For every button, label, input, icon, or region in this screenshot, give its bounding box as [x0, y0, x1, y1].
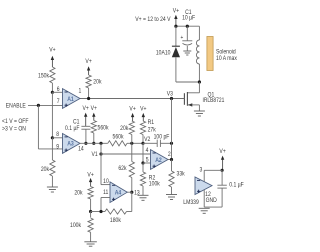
- svg-text:560k: 560k: [113, 134, 124, 141]
- node A2 output junction: [170, 158, 173, 161]
- wire V+ rail horizontal: [176, 25, 200, 27]
- svg-text:V+: V+: [140, 106, 147, 113]
- capacitor C1 0.1uF labels: [73, 119, 79, 126]
- svg-text:A2: A2: [155, 157, 162, 164]
- wire A2 output: [168, 159, 172, 161]
- wire to A1 pin 6: [52, 91, 62, 93]
- node 20k/62k junction: [130, 142, 133, 145]
- node V1 label: [91, 152, 97, 159]
- wire to A3 pin 8: [52, 137, 62, 139]
- svg-text:A1: A1: [67, 96, 74, 103]
- resistor 62k: [131, 143, 133, 161]
- svg-text:IRLB8721: IRLB8721: [203, 97, 225, 104]
- capacitor 100pF: [143, 142, 157, 144]
- node 100pF junction V3: [170, 142, 173, 145]
- resistor 20k pullup A1: [86, 75, 91, 88]
- label GND: [206, 198, 217, 205]
- resistor 20k pullup A2: [129, 121, 134, 135]
- svg-text:R1: R1: [148, 120, 154, 127]
- ground below 33k: [166, 194, 177, 196]
- node C1 junction: [84, 142, 87, 145]
- resistor 560k horizontal: [108, 141, 127, 146]
- wire V3 vertical: [171, 99, 173, 144]
- wire divider down to pin 8: [51, 92, 53, 138]
- pin 1 label: [78, 88, 81, 95]
- pin 7 label: [57, 98, 60, 105]
- svg-text:V+: V+: [129, 106, 136, 113]
- op-amp A1: [63, 89, 81, 109]
- power V+ arrow bottom 20k: [87, 172, 94, 179]
- svg-text:LM339: LM339: [183, 200, 199, 207]
- power V+ arrow for 150k: [49, 47, 56, 54]
- capacitor C1 10uF polarized: [186, 26, 188, 41]
- pin 12 label: [205, 192, 211, 199]
- pin 9 label: [56, 144, 59, 151]
- node junction V+/C1: [186, 25, 189, 28]
- svg-text:10: 10: [103, 179, 109, 186]
- capacitor C1 label: [185, 10, 191, 17]
- ground below divider 20k: [47, 186, 58, 188]
- ground below Q1 source: [194, 110, 205, 112]
- op-amp LM339 power symbol U1: [195, 177, 212, 195]
- wire ENABLE down to A3 pin 9: [37, 105, 39, 148]
- svg-text:V+: V+: [83, 106, 90, 113]
- resistor R1 27k: [140, 121, 145, 135]
- power V+ arrow for 20k pullup A2: [129, 106, 136, 113]
- resistor 180k: [105, 209, 127, 214]
- svg-text:150k: 150k: [38, 73, 49, 80]
- node drain junction: [198, 80, 201, 83]
- wire comparator A1 output to Q1 gate: [80, 98, 185, 100]
- svg-text:A4: A4: [115, 190, 122, 197]
- svg-text:ENABLE: ENABLE: [6, 103, 26, 110]
- svg-text:V+ = 12 to 24 V: V+ = 12 to 24 V: [135, 17, 170, 24]
- wire ENABLE input: [28, 104, 63, 106]
- resistor 33k: [171, 160, 173, 172]
- diode 10A10 label: [156, 50, 171, 57]
- op-amp A4: [110, 182, 127, 203]
- svg-text:180k: 180k: [110, 217, 121, 224]
- svg-text:20k: 20k: [120, 126, 128, 133]
- node junction pin8: [51, 136, 54, 139]
- svg-text:<1 V = OFF: <1 V = OFF: [2, 119, 29, 126]
- label Q1: [208, 92, 215, 99]
- svg-text:13: 13: [134, 190, 140, 197]
- label ENABLE: [6, 103, 26, 110]
- wire 560k to 20k node: [127, 142, 143, 144]
- resistor 100k: [90, 212, 92, 218]
- svg-text:27k: 27k: [148, 127, 156, 134]
- node bottom divider junction: [89, 210, 92, 213]
- svg-text:V+: V+: [49, 47, 56, 54]
- ground below 100k: [84, 241, 97, 243]
- node V3 junction: [170, 97, 173, 100]
- node V2 junction: [141, 142, 144, 145]
- ground below R2: [138, 194, 149, 196]
- label Solenoid 10 A max: [216, 49, 236, 56]
- capacitor C1 0.1uF: [81, 125, 90, 127]
- svg-text:8: 8: [56, 132, 59, 139]
- svg-text:V+: V+: [91, 106, 98, 113]
- svg-text:20k: 20k: [41, 167, 49, 174]
- node V1 branch junction: [99, 142, 102, 145]
- pin 13 label: [134, 190, 140, 197]
- svg-text:GND: GND: [206, 198, 217, 205]
- svg-text:V+: V+: [173, 8, 180, 15]
- power V+ arrow for C1 bypass: [83, 106, 90, 113]
- label thresholds: [2, 119, 29, 126]
- pin 6 label: [57, 87, 60, 94]
- svg-text:V+: V+: [85, 59, 92, 66]
- node V3 label: [167, 91, 173, 98]
- capacitor 100pF label: [154, 134, 170, 141]
- svg-text:V1: V1: [91, 152, 97, 159]
- wire V2 down to pin 5: [142, 143, 144, 163]
- node V2 label: [144, 137, 150, 144]
- node V1 junction: [99, 152, 102, 155]
- svg-text:1: 1: [78, 88, 81, 95]
- svg-text:0.1 µF: 0.1 µF: [65, 126, 80, 133]
- label LM339: [183, 200, 199, 207]
- solenoid inductor coil: [198, 26, 200, 40]
- svg-text:V+: V+: [219, 149, 226, 156]
- wire A4 output: [127, 191, 132, 193]
- svg-text:0.1 µF: 0.1 µF: [229, 182, 244, 189]
- svg-text:+: +: [181, 35, 184, 42]
- pin 8 label: [56, 132, 59, 139]
- svg-text:100k: 100k: [149, 181, 160, 188]
- capacitor 0.1uF LM339: [221, 170, 223, 185]
- svg-text:A3: A3: [67, 141, 74, 148]
- power rail V+ arrow (top): [173, 8, 180, 15]
- wire V1 to A2 pin 4: [101, 153, 151, 155]
- svg-text:10 µF: 10 µF: [182, 15, 196, 22]
- diode 10A10: [175, 26, 177, 46]
- label V+ = 12 to 24 V: [135, 17, 170, 24]
- node pin11 junction: [99, 210, 102, 213]
- pin 14 label: [78, 146, 84, 153]
- wire V1 down to A4 pin 10: [100, 154, 102, 185]
- node A4 output junction: [130, 191, 133, 194]
- svg-text:9: 9: [56, 144, 59, 151]
- solenoid body: [207, 37, 213, 71]
- svg-text:V3: V3: [167, 91, 173, 98]
- svg-text:6: 6: [57, 87, 60, 94]
- wire 62k node down to 180k: [131, 192, 133, 211]
- node ENABLE junction: [37, 104, 40, 107]
- node junction V+/diode: [174, 25, 177, 28]
- power V+ arrow for A1 pullup 20k: [85, 59, 92, 66]
- wire A4 pin 11: [101, 197, 110, 199]
- pin 11 label: [103, 190, 108, 197]
- svg-text:V+: V+: [87, 172, 94, 179]
- ground below C1: [183, 50, 191, 52]
- svg-text:4: 4: [146, 148, 149, 155]
- svg-text:11: 11: [103, 190, 108, 197]
- pin 2 label: [168, 152, 171, 159]
- wire LM339 pin 12 to ground: [203, 190, 205, 207]
- svg-text:20k: 20k: [93, 79, 101, 86]
- pin 3 label: [199, 167, 202, 174]
- svg-text:2: 2: [168, 152, 171, 159]
- wire A3 output row: [80, 142, 108, 144]
- wire bottom node row: [91, 211, 105, 213]
- wire A2 pin 5: [143, 162, 151, 164]
- svg-text:>3 V = ON: >3 V = ON: [2, 126, 26, 133]
- wire LM339 V+ to pin 3: [204, 169, 222, 171]
- wire divider down to 20k: [51, 138, 53, 160]
- svg-text:5: 5: [146, 157, 149, 164]
- svg-text:20k: 20k: [74, 190, 82, 197]
- svg-text:560k: 560k: [98, 125, 109, 132]
- node A1 output junction: [87, 97, 90, 100]
- node 560k junction: [92, 142, 95, 145]
- pin 5 label: [146, 157, 149, 164]
- op-amp A2: [151, 150, 169, 170]
- svg-text:Solenoid: Solenoid: [216, 49, 236, 56]
- power V+ arrow for R1: [140, 106, 147, 113]
- node divider junction pin6: [51, 91, 54, 94]
- svg-text:62k: 62k: [118, 166, 126, 173]
- svg-text:7: 7: [57, 98, 60, 105]
- op-amp A3: [63, 134, 81, 154]
- resistor 150k: [50, 67, 55, 83]
- svg-text:10 A max: 10 A max: [216, 56, 237, 63]
- svg-text:14: 14: [78, 146, 84, 153]
- power V+ arrow LM339: [219, 149, 226, 156]
- transistor Q1 IRLB8721 MOSFET: [198, 82, 200, 93]
- pin 10 label: [103, 179, 109, 186]
- resistor 560k vertical: [91, 121, 96, 134]
- svg-text:33k: 33k: [177, 171, 185, 178]
- node R2 junction: [141, 161, 144, 164]
- svg-text:100 pF: 100 pF: [154, 134, 170, 141]
- svg-text:3: 3: [199, 167, 202, 174]
- svg-text:100k: 100k: [70, 223, 81, 230]
- resistor R2 100k: [142, 163, 144, 172]
- svg-text:V2: V2: [144, 137, 150, 144]
- resistor 20k bottom: [88, 187, 93, 200]
- ground LM339: [199, 207, 210, 209]
- wire diode anode to drain node: [176, 81, 200, 83]
- power V+ arrow for 560k: [91, 106, 98, 113]
- pin 4 label: [146, 148, 149, 155]
- svg-text:10A10: 10A10: [156, 50, 171, 57]
- resistor 20k divider: [50, 160, 55, 176]
- label IRLB8721: [203, 97, 225, 104]
- node LM339 V+ junction: [221, 169, 224, 172]
